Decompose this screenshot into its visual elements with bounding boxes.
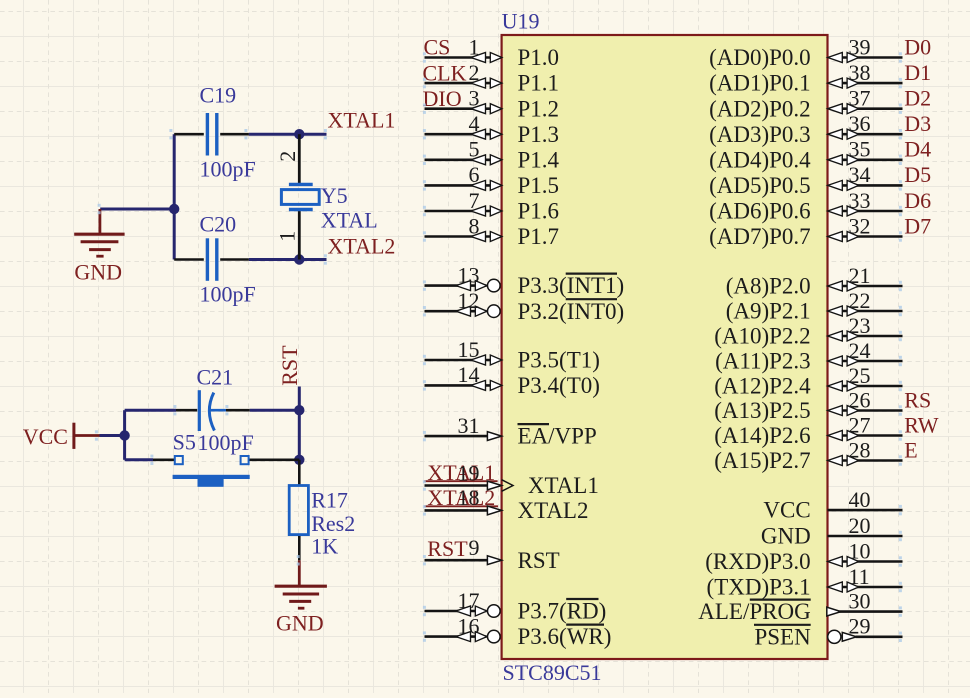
svg-text:STC89C51: STC89C51: [503, 660, 602, 685]
U19 pin 40 (VCC) right: [763, 487, 902, 523]
ground GND (reset circuit): [275, 560, 327, 635]
net label RW: [904, 412, 938, 437]
svg-text:D5: D5: [904, 162, 931, 187]
U19 pin 27 ((A14)P2.6) right: [714, 412, 902, 448]
U19 pin 38 ((AD1)P0.1) right: [709, 60, 902, 96]
U19 pin 7 (P1.6) left: [425, 188, 560, 224]
U19 pin 3 (P1.2) left: [425, 86, 560, 122]
wire: left vertical bus between C19 and C20: [173, 134, 176, 259]
U19 pin 5 (P1.4) left: [425, 137, 560, 173]
svg-text:10: 10: [849, 538, 871, 563]
svg-text:P1.1: P1.1: [518, 71, 560, 96]
U19 pin 16 (P3.6(WR)) left: [425, 613, 612, 649]
svg-text:P1.6: P1.6: [518, 199, 560, 224]
U19 pin 26 ((A13)P2.5) right: [714, 387, 902, 423]
svg-text:24: 24: [849, 338, 871, 363]
U19 pin 24 ((A11)P2.3) right: [715, 338, 902, 374]
svg-text:VCC: VCC: [23, 424, 68, 449]
svg-text:(A8)P2.0: (A8)P2.0: [726, 274, 811, 299]
U19 pin 15 (P3.5(T1)) left: [425, 337, 600, 373]
svg-text:5: 5: [469, 137, 480, 162]
svg-text:18: 18: [458, 485, 480, 510]
svg-text:P3.2(INT0): P3.2(INT0): [518, 299, 625, 324]
svg-text:(AD7)P0.7: (AD7)P0.7: [709, 224, 811, 249]
net label D7: [904, 213, 931, 238]
U19 pin 28 ((A15)P2.7) right: [714, 437, 902, 473]
svg-text:21: 21: [849, 263, 871, 288]
capacitor C21: [176, 365, 254, 456]
U19 pin 1 (P1.0) left: [425, 34, 560, 70]
svg-text:ALE/PROG: ALE/PROG: [698, 599, 810, 624]
svg-text:(RXD)P3.0: (RXD)P3.0: [705, 549, 810, 574]
svg-text:27: 27: [849, 412, 871, 437]
junction: XTAL2 / Y5 pin 1: [294, 254, 304, 264]
svg-text:VCC: VCC: [763, 498, 810, 523]
resistor R17: [289, 460, 355, 561]
ground GND (crystal circuit): [74, 209, 124, 285]
svg-text:17: 17: [458, 588, 480, 613]
svg-text:2: 2: [275, 151, 300, 162]
part value STC89C51: [503, 660, 602, 685]
U19 pin 8 (P1.7) left: [425, 213, 560, 249]
svg-text:13: 13: [458, 262, 480, 287]
svg-text:29: 29: [849, 614, 871, 639]
svg-text:25: 25: [849, 363, 871, 388]
net label D5: [904, 162, 931, 187]
svg-text:RW: RW: [904, 412, 938, 437]
U19 pin 29 (PSEN) right: [754, 614, 903, 650]
svg-text:XTAL1: XTAL1: [328, 107, 396, 132]
svg-text:20: 20: [849, 513, 871, 538]
U19 pin 32 ((AD7)P0.7) right: [709, 213, 902, 249]
svg-text:(AD2)P0.2: (AD2)P0.2: [709, 96, 811, 121]
svg-text:PSEN: PSEN: [754, 624, 811, 649]
svg-text:C21: C21: [197, 365, 234, 390]
svg-text:D4: D4: [904, 137, 931, 162]
U19 pin 36 ((AD3)P0.3) right: [709, 111, 902, 147]
svg-text:(TXD)P3.1: (TXD)P3.1: [707, 575, 811, 600]
svg-text:D7: D7: [904, 213, 931, 238]
svg-text:Y5: Y5: [321, 183, 348, 208]
svg-text:40: 40: [849, 487, 871, 512]
net label DIO: [423, 86, 462, 111]
junction: GND / C19 / C20 bus: [169, 204, 179, 214]
svg-text:(AD5)P0.5: (AD5)P0.5: [709, 173, 811, 198]
svg-text:28: 28: [849, 437, 871, 462]
svg-text:XTAL2: XTAL2: [518, 498, 589, 523]
U19 pin 25 ((A12)P2.4) right: [714, 363, 902, 399]
svg-text:36: 36: [849, 111, 871, 136]
svg-text:3: 3: [469, 86, 480, 111]
svg-text:38: 38: [849, 60, 871, 85]
svg-text:R17: R17: [311, 487, 348, 512]
svg-text:D3: D3: [904, 111, 931, 136]
svg-text:22: 22: [849, 288, 871, 313]
wire: VCC column vertical: [123, 410, 126, 460]
svg-text:1: 1: [275, 231, 300, 242]
U19 pin 11 ((TXD)P3.1) right: [707, 564, 903, 600]
svg-text:(AD3)P0.3: (AD3)P0.3: [709, 122, 811, 147]
net label D6: [904, 188, 931, 213]
svg-text:11: 11: [849, 564, 870, 589]
svg-text:P3.7(RD): P3.7(RD): [518, 599, 607, 624]
svg-text:(AD0)P0.0: (AD0)P0.0: [709, 45, 811, 70]
svg-text:14: 14: [458, 362, 480, 387]
svg-text:XTAL2: XTAL2: [328, 233, 396, 258]
net label D2: [904, 86, 931, 111]
wire: top reset wire left segment: [125, 409, 176, 412]
svg-text:23: 23: [849, 313, 871, 338]
svg-text:P3.3(INT1): P3.3(INT1): [518, 273, 625, 298]
svg-text:P1.7: P1.7: [518, 224, 560, 249]
wire: VCC stub to vertical bus: [100, 434, 125, 437]
svg-text:(A11)P2.3: (A11)P2.3: [715, 349, 811, 374]
svg-text:16: 16: [458, 613, 480, 638]
svg-text:100pF: 100pF: [198, 430, 254, 455]
svg-text:D6: D6: [904, 188, 931, 213]
svg-text:35: 35: [849, 137, 871, 162]
svg-text:(A10)P2.2: (A10)P2.2: [714, 324, 810, 349]
svg-text:(A15)P2.7: (A15)P2.7: [714, 448, 810, 473]
net label CS: [424, 35, 451, 60]
svg-text:XTAL: XTAL: [321, 207, 378, 232]
svg-text:RST: RST: [518, 548, 560, 573]
Y5 pin number 2: [275, 151, 300, 162]
U19 pin 4 (P1.3) left: [425, 111, 560, 147]
U19 pin 14 (P3.4(T0)) left: [425, 362, 600, 398]
wire: bottom reset wire left segment: [125, 458, 153, 461]
svg-text:6: 6: [469, 162, 480, 187]
U19 pin 21 ((A8)P2.0) right: [726, 263, 903, 299]
svg-text:(AD6)P0.6: (AD6)P0.6: [709, 199, 811, 224]
U19 pin 22 ((A9)P2.1) right: [726, 288, 903, 324]
net label CLK: [423, 60, 467, 85]
net label XTAL1 (pin 19): [424, 460, 497, 485]
svg-text:E: E: [904, 437, 917, 462]
net label D4: [904, 137, 931, 162]
svg-text:(A9)P2.1: (A9)P2.1: [726, 299, 811, 324]
svg-text:(AD4)P0.4: (AD4)P0.4: [709, 147, 811, 172]
wire endpoint markers: [95, 129, 327, 566]
net label XTAL1: [328, 107, 396, 132]
svg-text:9: 9: [469, 535, 480, 560]
U19 pin 35 ((AD4)P0.4) right: [709, 137, 902, 173]
svg-text:P3.4(T0): P3.4(T0): [518, 373, 600, 398]
svg-text:(A13)P2.5: (A13)P2.5: [714, 398, 810, 423]
svg-text:34: 34: [849, 162, 871, 187]
svg-text:C20: C20: [200, 212, 237, 237]
net label RST (rotated): [277, 345, 302, 386]
U19 pin 6 (P1.5) left: [425, 162, 560, 198]
svg-text:RST: RST: [427, 536, 468, 561]
U19 pin 2 (P1.1) left: [425, 60, 560, 96]
svg-text:Res2: Res2: [311, 511, 355, 536]
wire: RST label down to C21 net: [298, 387, 301, 411]
svg-text:37: 37: [849, 86, 871, 111]
svg-text:12: 12: [458, 288, 480, 313]
svg-text:15: 15: [458, 337, 480, 362]
U19 pin 31 (EA/VPP) left: [425, 413, 597, 449]
svg-text:RS: RS: [904, 387, 931, 412]
svg-text:P1.3: P1.3: [518, 122, 560, 147]
svg-text:1: 1: [469, 34, 480, 59]
U19 pin 23 ((A10)P2.2) right: [714, 313, 902, 349]
U19 pin 19 ( XTAL1) left: [425, 460, 599, 498]
svg-text:100pF: 100pF: [200, 157, 256, 182]
svg-text:RST: RST: [277, 345, 302, 386]
svg-text:D1: D1: [904, 60, 931, 85]
crystal Y5: [281, 134, 377, 259]
U19 pin 9 (RST) left: [425, 535, 560, 573]
wire: GND to left bus: [100, 208, 174, 211]
net label E: [904, 437, 917, 462]
svg-text:P1.0: P1.0: [518, 45, 560, 70]
U19 pin 12 (P3.2(INT0)) left: [425, 288, 625, 324]
U19 pin 33 ((AD6)P0.6) right: [709, 188, 902, 224]
U19 pin 37 ((AD2)P0.2) right: [709, 86, 902, 122]
wire: RST column between C21 and S5 nets: [298, 410, 301, 460]
U19 pin 34 ((AD5)P0.5) right: [709, 162, 902, 198]
svg-text:39: 39: [849, 34, 871, 59]
svg-text:1K: 1K: [311, 533, 338, 558]
svg-text:P1.5: P1.5: [518, 173, 560, 198]
net label D0: [904, 34, 931, 59]
junction: RST / C21: [294, 405, 304, 415]
U19 pin 18 (XTAL2) left: [425, 485, 589, 523]
svg-text:GND: GND: [761, 524, 811, 549]
svg-text:P1.2: P1.2: [518, 96, 560, 121]
net label RS: [904, 387, 931, 412]
svg-text:CS: CS: [424, 35, 451, 60]
svg-text:EA/VPP: EA/VPP: [518, 424, 597, 449]
capacitor C19: [174, 83, 256, 182]
switch S5: [153, 429, 299, 487]
svg-text:8: 8: [469, 213, 480, 238]
junction: VCC node: [119, 430, 129, 440]
power port VCC: [23, 423, 100, 449]
svg-text:XTAL1: XTAL1: [518, 473, 599, 498]
wire: C20 to XTAL2 net stub: [249, 258, 327, 261]
svg-text:(AD1)P0.1: (AD1)P0.1: [709, 71, 811, 96]
wire: C19 to XTAL1 net stub: [249, 133, 327, 136]
svg-text:19: 19: [458, 460, 480, 485]
svg-text:2: 2: [469, 60, 480, 85]
svg-text:4: 4: [469, 111, 480, 136]
svg-text:(A12)P2.4: (A12)P2.4: [714, 374, 811, 399]
U19 pin 13 (P3.3(INT1)) left: [425, 262, 625, 298]
svg-text:GND: GND: [74, 260, 122, 285]
svg-text:26: 26: [849, 387, 871, 412]
wire: C21 right to RST column: [250, 409, 300, 412]
U19 pin 17 (P3.7(RD)) left: [425, 588, 607, 624]
svg-text:GND: GND: [276, 610, 324, 635]
capacitor C20: [174, 212, 256, 307]
svg-text:P3.5(T1): P3.5(T1): [518, 348, 600, 373]
svg-text:C19: C19: [200, 83, 237, 108]
net label XTAL2: [328, 233, 396, 258]
U19 pin 10 ((RXD)P3.0) right: [705, 538, 902, 574]
svg-text:P1.4: P1.4: [518, 147, 560, 172]
designator U19: [502, 8, 540, 33]
svg-text:30: 30: [849, 588, 871, 613]
svg-text:32: 32: [849, 213, 871, 238]
IC U19 body: [502, 35, 828, 659]
svg-text:P3.6(WR): P3.6(WR): [518, 624, 612, 649]
svg-text:D0: D0: [904, 34, 931, 59]
net label RST (pin 9): [427, 536, 468, 561]
U19 pin 20 (GND) right: [761, 513, 903, 549]
U19 pin 30 (ALE/PROG) right: [698, 588, 902, 624]
net label XTAL2 (pin 18): [424, 485, 498, 510]
svg-text:(A14)P2.6: (A14)P2.6: [714, 423, 810, 448]
svg-text:33: 33: [849, 188, 871, 213]
svg-text:D2: D2: [904, 86, 931, 111]
svg-text:31: 31: [458, 413, 480, 438]
net label D3: [904, 111, 931, 136]
svg-text:S5: S5: [173, 429, 196, 454]
net label D1: [904, 60, 931, 85]
junction: XTAL1 / Y5 pin 2: [294, 129, 304, 139]
junction: RST / S5 / R17: [294, 455, 304, 465]
U19 pin 39 ((AD0)P0.0) right: [709, 34, 902, 70]
svg-text:7: 7: [469, 188, 480, 213]
svg-text:CLK: CLK: [423, 60, 467, 85]
Y5 pin number 1: [275, 231, 300, 242]
svg-text:100pF: 100pF: [200, 282, 256, 307]
svg-text:U19: U19: [502, 8, 540, 33]
